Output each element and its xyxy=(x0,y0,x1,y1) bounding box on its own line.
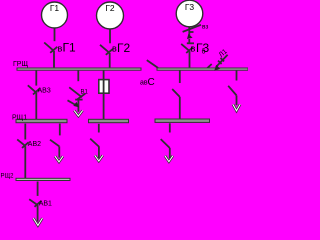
svg-text:В1: В1 xyxy=(81,90,89,96)
svg-text:С: С xyxy=(148,77,155,88)
svg-text:вз: вз xyxy=(202,23,208,30)
svg-text:РЩ1: РЩ1 xyxy=(12,115,27,122)
svg-text:РЩ2: РЩ2 xyxy=(1,174,15,180)
svg-text:в: в xyxy=(191,43,196,53)
svg-text:Г3: Г3 xyxy=(185,2,195,12)
svg-text:Г1: Г1 xyxy=(63,41,76,55)
svg-text:Г2: Г2 xyxy=(117,41,130,55)
svg-text:АВ3: АВ3 xyxy=(38,87,51,94)
svg-text:Г2: Г2 xyxy=(105,3,115,13)
svg-text:ГРЩ: ГРЩ xyxy=(13,61,28,68)
svg-text:АВ2: АВ2 xyxy=(28,141,41,148)
svg-text:Г1: Г1 xyxy=(50,3,60,13)
svg-text:АВ1: АВ1 xyxy=(39,200,52,207)
svg-text:б: б xyxy=(202,48,206,56)
